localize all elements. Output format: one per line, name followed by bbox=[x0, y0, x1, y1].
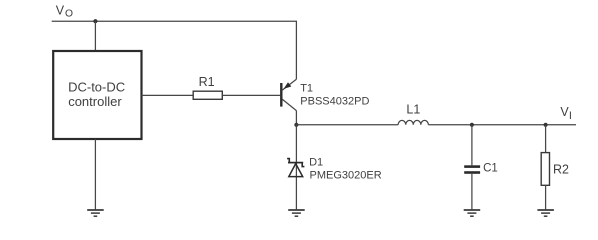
node junction dot on VO rail bbox=[93, 19, 97, 23]
svg-text:PBSS4032PD: PBSS4032PD bbox=[300, 96, 369, 108]
svg-text:L1: L1 bbox=[406, 102, 420, 116]
svg-text:R1: R1 bbox=[199, 75, 215, 89]
wire from R1 to T1 base bbox=[222, 94, 280, 96]
resistor R2 body bbox=[541, 153, 549, 186]
svg-text:C1: C1 bbox=[483, 163, 498, 175]
svg-text:R2: R2 bbox=[553, 162, 569, 176]
svg-text:controller: controller bbox=[68, 94, 122, 109]
svg-text:PMEG3020ER: PMEG3020ER bbox=[310, 170, 382, 182]
ground below D1 bbox=[288, 210, 305, 216]
wire VO top rail to T1 emitter corner bbox=[52, 21, 297, 79]
transistor Q1 base bar bbox=[280, 83, 282, 107]
svg-text:D1: D1 bbox=[309, 157, 323, 169]
wire from rail down to C1 top plate bbox=[471, 125, 473, 166]
wire output rail from L1 to VI terminal bbox=[428, 124, 576, 126]
transistor Q1 emitter diagonal bbox=[282, 79, 297, 90]
ground below R2 bbox=[537, 210, 554, 216]
wire from controller box bottom down to ground bbox=[94, 139, 96, 209]
DC-to-DC controller box U1 bbox=[53, 51, 141, 139]
svg-text:I: I bbox=[569, 110, 572, 122]
node junction dot at R2 bbox=[544, 123, 548, 127]
node junction dot collector/D1/L1 bbox=[294, 123, 298, 127]
node VI net label bbox=[560, 105, 572, 122]
svg-text:V: V bbox=[56, 3, 65, 17]
wire from R2 bottom to ground bbox=[545, 185, 547, 209]
wire from VO rail down to controller box top bbox=[94, 21, 96, 51]
ground below C1 bbox=[464, 210, 481, 216]
inductor L1 winding bbox=[398, 120, 428, 124]
transistor Q1 collector diagonal bbox=[282, 99, 296, 110]
transistor Q1 emitter arrow (PNP, pointing into base) bbox=[284, 82, 292, 89]
svg-text:DC-to-DC: DC-to-DC bbox=[68, 80, 125, 95]
wire from C1 bottom plate to ground bbox=[471, 174, 473, 210]
resistor R1 body bbox=[193, 91, 222, 99]
node VO net label bbox=[56, 3, 73, 19]
wire from node down through D1 to ground bbox=[295, 125, 297, 210]
diode D1 schottky cathode bar bbox=[287, 159, 304, 167]
svg-text:T1: T1 bbox=[300, 83, 313, 95]
wire from controller box output to R1 bbox=[142, 94, 194, 96]
ground below controller box bbox=[87, 210, 104, 216]
node junction dot at C1 bbox=[470, 123, 474, 127]
wire T1 collector down to output node bbox=[295, 111, 297, 125]
wire output rail from node to L1 bbox=[296, 124, 398, 126]
svg-text:O: O bbox=[65, 8, 73, 19]
wire from rail down to R2 top bbox=[545, 125, 547, 153]
capacitor C1 plates bbox=[464, 165, 480, 174]
diode D1 anode triangle bbox=[289, 164, 303, 177]
